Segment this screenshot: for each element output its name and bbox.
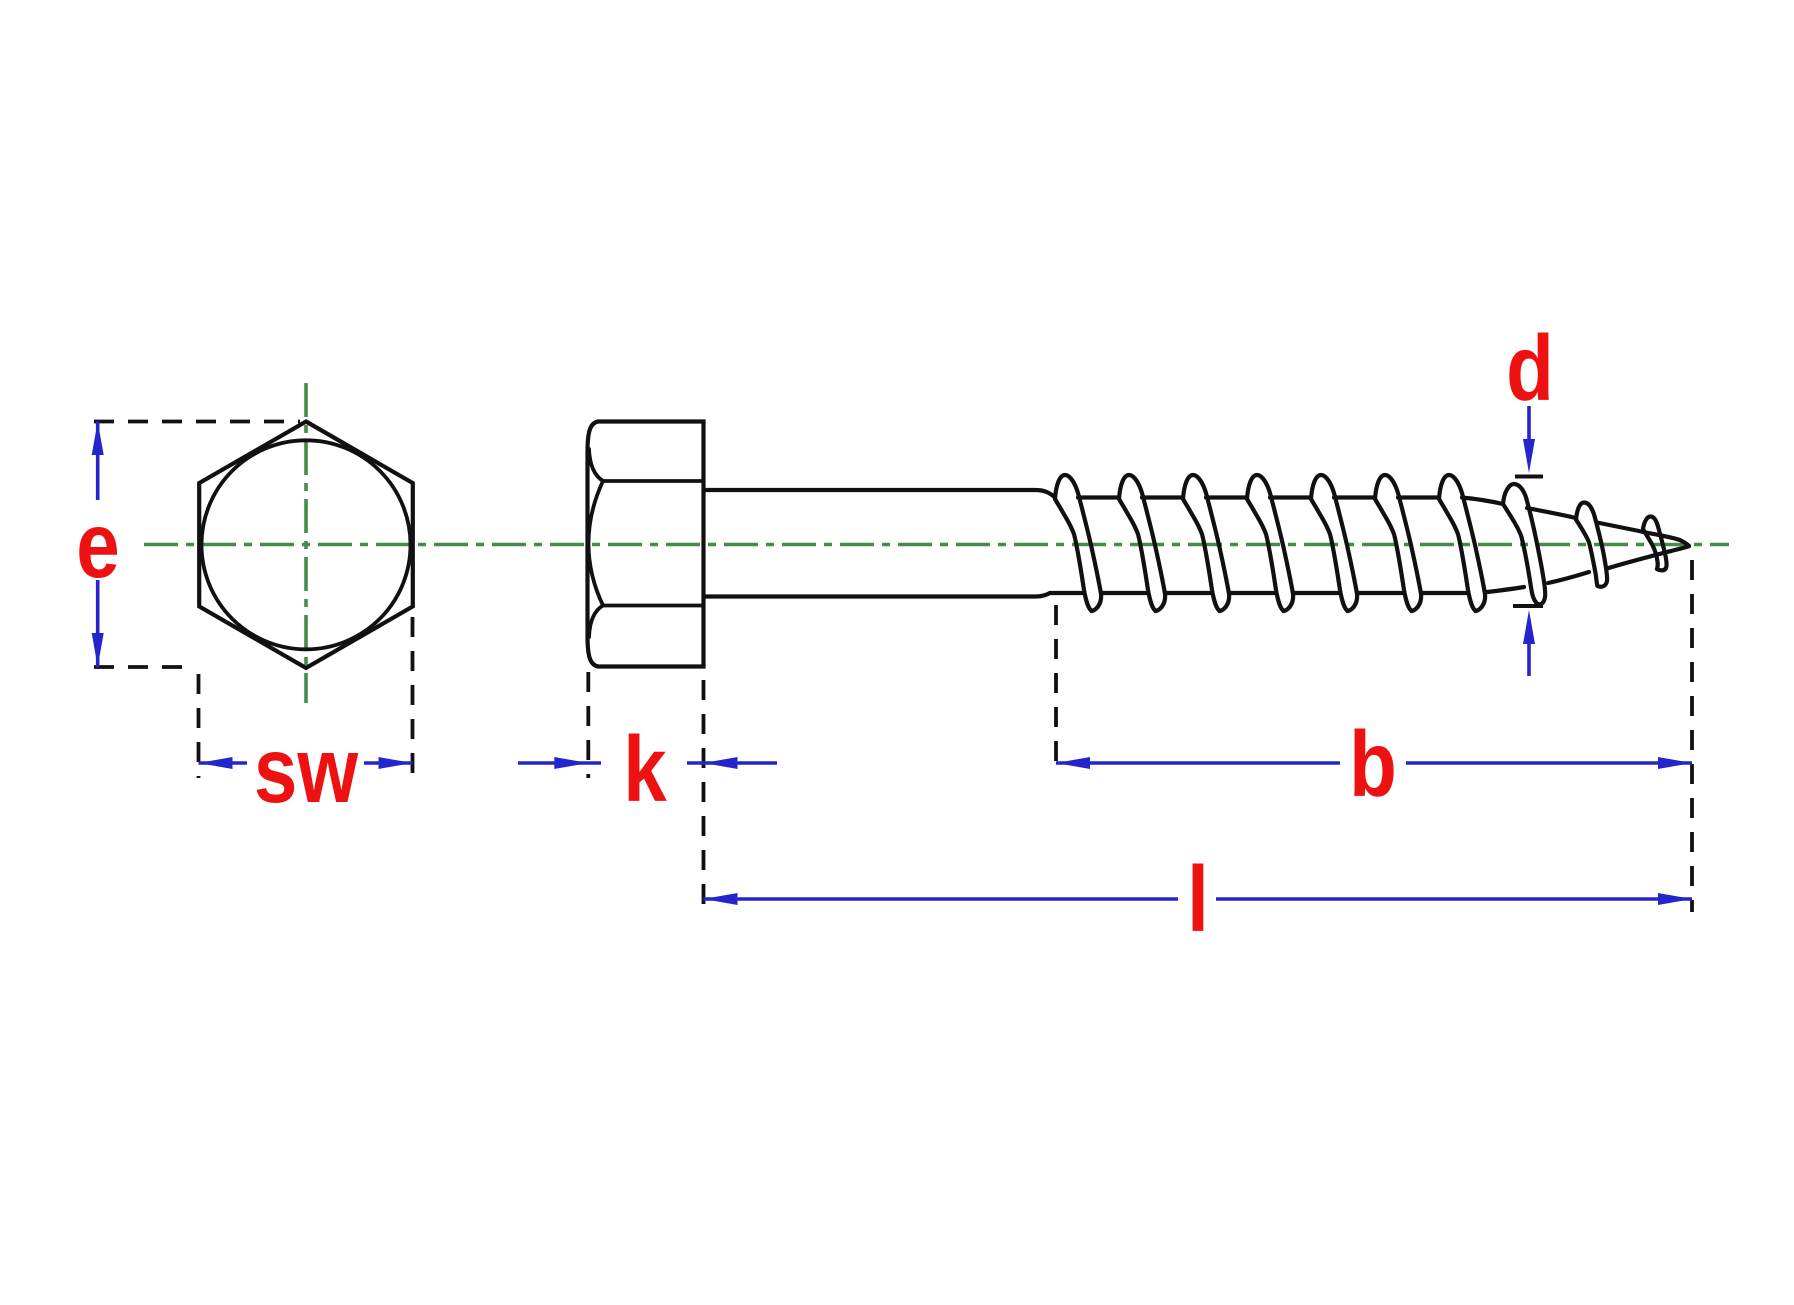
svg-text:l: l [1187,848,1209,952]
taper bottom envelope segment 1 [1487,587,1524,592]
l dimension line left segment [704,897,1179,901]
hexagon outline (head front view) [199,422,413,669]
b dimension line right segment [1406,761,1692,765]
k dimension line left (outside) [518,761,601,765]
k arrowhead pointing right [554,757,588,769]
svg-text:b: b [1349,713,1397,817]
thread crest 3 outer edge [1183,475,1229,611]
thread crest 3 inner edge [1183,499,1220,611]
d arrowhead pointing up [1523,610,1535,644]
thread crest 4 outer edge [1247,475,1293,611]
taper bottom envelope segment 2 [1548,572,1589,583]
thread crest 5 outer edge [1311,475,1357,611]
sw dimension line left segment [199,761,248,765]
thread root bottom line segments [1050,591,1468,595]
taper crest C outer edge [1643,517,1667,571]
taper top envelope segment 2 [1527,508,1576,518]
head lower facet line [603,604,704,608]
thread crest 1 outer edge [1055,475,1101,611]
taper top envelope segment 1 [1462,498,1503,505]
shank top line [704,490,1056,498]
thread crest 2 outer edge [1119,475,1165,611]
head upper facet line [603,479,704,483]
sw arrowhead right [379,757,413,769]
e dimension line upper segment [96,422,100,501]
thread crest 2 inner edge [1119,499,1156,611]
e dimension line lower segment [96,580,100,667]
taper crest A outer edge [1503,484,1545,604]
inscribed circle of hex head [202,440,411,649]
horizontal centerline (screw axis) [144,543,1729,547]
sw right extension line (dashed) [411,617,415,778]
d dimension upper line [1527,406,1531,452]
d dimension lower tick [1513,604,1543,608]
d arrowhead pointing down [1523,439,1535,473]
svg-text:k: k [623,718,667,822]
k dimension line right (outside) [687,761,777,765]
l arrowhead left [704,893,738,905]
thread crest 7 inner edge [1439,499,1476,611]
sw dimension line right segment [364,761,413,765]
thread crest 4 inner edge [1247,499,1284,611]
thread crest 1 inner edge [1055,499,1092,611]
head bottom facet chamfer arc [589,606,603,638]
b dimension line left segment [1056,761,1340,765]
svg-text:sw: sw [254,719,358,823]
k right / l left extension line (dashed) [702,680,706,912]
l arrowhead right [1658,893,1692,905]
e arrowhead down [92,633,104,667]
e arrowhead up [92,422,104,456]
sw left extension line (dashed) [197,674,201,778]
e dimension upper extension line (dashed) [94,420,300,424]
svg-text:e: e [76,494,119,598]
l dimension line right segment [1216,897,1692,901]
taper crest B outer edge [1576,503,1607,587]
thread crest 5 inner edge [1311,499,1348,611]
taper top envelope segment 4 (to tip) [1641,532,1689,546]
sw arrowhead left [199,757,233,769]
b arrowhead right [1658,757,1692,769]
head top facet chamfer arc [589,449,603,481]
hex head side view outline [588,422,704,667]
e dimension lower extension line (dashed) [94,665,186,669]
svg-text:d: d [1506,317,1554,421]
d dimension upper tick [1515,475,1543,479]
taper top envelope segment 3 [1597,523,1639,532]
thread crest 6 outer edge [1375,475,1421,611]
thread crest 7 outer edge [1439,475,1485,611]
b right / l right extension line (dashed) [1690,560,1694,912]
taper bottom envelope segment 3 (through to tip) [1607,546,1689,568]
b left extension line (dashed) [1054,605,1058,775]
d dimension lower line [1527,632,1531,676]
taper crest C inner edge [1643,529,1658,569]
head middle chamfer arc [589,481,604,606]
k arrowhead pointing left [704,757,738,769]
vertical centerline of hex head front view [304,383,308,703]
taper crest A inner edge [1503,504,1537,604]
thread root top line segments [1078,495,1439,499]
taper crest B inner edge [1576,520,1598,587]
k left extension line (dashed) [586,672,590,778]
b arrowhead left [1056,757,1090,769]
thread crest 6 inner edge [1375,499,1412,611]
shank bottom line [704,593,1051,597]
